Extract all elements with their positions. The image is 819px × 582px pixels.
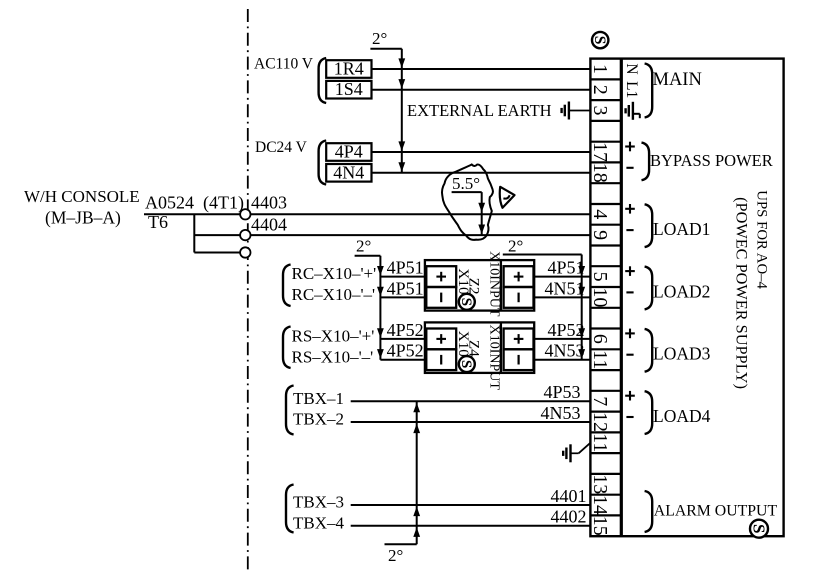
brace LOAD3 group xyxy=(645,329,653,372)
terminal pin number 3 at y 111 xyxy=(589,106,611,116)
svg-text:RC–X10–'+': RC–X10–'+' xyxy=(292,264,377,283)
svg-text:4403: 4403 xyxy=(251,193,287,213)
wire branch to node B xyxy=(194,234,240,236)
terminal strip cell dividers xyxy=(590,78,620,80)
plus sign LOAD4 xyxy=(625,395,635,397)
svg-text:LOAD3: LOAD3 xyxy=(653,344,711,364)
svg-text:4P52: 4P52 xyxy=(387,320,424,340)
twist arrow at TBX-3 wire xyxy=(413,507,420,517)
converter Z2 outline xyxy=(425,260,534,311)
svg-text:4P51: 4P51 xyxy=(387,278,424,298)
terminal pin number 11 at y 360 xyxy=(589,350,611,369)
terminal pin number 14 at y 505 xyxy=(589,495,611,515)
svg-text:BYPASS POWER: BYPASS POWER xyxy=(650,151,773,170)
svg-text:X10INPUT: X10INPUT xyxy=(487,251,502,317)
shield symbol in Z4 xyxy=(459,356,475,372)
Z4 right minus sign xyxy=(517,355,519,365)
svg-text:X10INPUT: X10INPUT xyxy=(487,325,502,391)
svg-text:14: 14 xyxy=(589,495,611,515)
plus sign LOAD3 xyxy=(625,332,635,334)
label X10 of Z4 xyxy=(455,331,472,358)
revision cloud xyxy=(442,164,493,239)
label N xyxy=(623,63,640,74)
wire Z2- to terminal 10 xyxy=(534,296,590,298)
twist arrow at 4N53 wire xyxy=(578,349,585,359)
svg-text:2°: 2° xyxy=(388,546,403,565)
svg-text:L1: L1 xyxy=(623,81,640,98)
label Z2 xyxy=(465,278,482,295)
Z2 left plus sign xyxy=(436,276,446,278)
twist arrow at wire 1S4 xyxy=(398,79,405,89)
svg-text:4P51: 4P51 xyxy=(387,258,424,278)
pen mark symbol xyxy=(500,187,515,208)
terminal pin number 5 at y 277 xyxy=(589,272,611,282)
wire TBX-1 to terminal 7 xyxy=(351,400,591,402)
terminal strip right edge xyxy=(620,59,623,537)
wire RS- to Z4 xyxy=(380,359,425,361)
wire 4404 to terminal 9 xyxy=(250,234,590,236)
minus sign LOAD2 xyxy=(626,291,633,293)
svg-text:MAIN: MAIN xyxy=(653,70,702,90)
brace AC110V group xyxy=(319,58,327,103)
svg-text:X10: X10 xyxy=(455,331,472,358)
wire RS+ to Z4 xyxy=(380,338,425,340)
svg-text:LOAD4: LOAD4 xyxy=(653,406,711,426)
svg-text:4P53: 4P53 xyxy=(543,382,580,402)
wire branch to node C xyxy=(194,252,240,254)
plus sign LOAD2 xyxy=(625,270,635,272)
converter Z4 outline xyxy=(425,322,534,373)
wire RC+ to Z2 xyxy=(380,276,425,278)
twist marker bottom vertical line xyxy=(416,401,418,544)
terminal box 1R4 xyxy=(326,60,371,78)
twist arrow at TBX-4 wire xyxy=(413,527,420,537)
svg-text:2°: 2° xyxy=(508,237,523,256)
shield symbol in Z2 xyxy=(459,294,475,310)
svg-text:LOAD1: LOAD1 xyxy=(653,219,710,239)
node A (boundary crossing of 4403) xyxy=(240,209,250,219)
brace RC-X10 group xyxy=(283,265,291,307)
Z4 left minus sign xyxy=(440,355,442,365)
brace TBX-3/4 group xyxy=(286,485,294,533)
boundary dash-dot line (panel limit) xyxy=(247,9,249,570)
svg-text:4P52: 4P52 xyxy=(387,341,424,361)
svg-text:2°: 2° xyxy=(372,29,387,48)
wire TBX-3 (4401) to terminal 14 xyxy=(351,504,591,506)
label Z4 xyxy=(465,340,482,357)
brace ALARM OUTPUT group xyxy=(645,491,653,532)
Z4 right plus box xyxy=(504,329,534,350)
svg-text:S: S xyxy=(591,36,608,45)
twist marker top underline xyxy=(370,48,401,50)
Z4 left minus box xyxy=(426,349,456,370)
twist marker right vertical line xyxy=(581,255,583,360)
Z4 right minus box xyxy=(504,349,534,370)
brace TBX-1/2 group xyxy=(286,386,294,435)
Z2 right plus box xyxy=(504,266,534,287)
shield symbol top xyxy=(592,32,608,48)
svg-text:LOAD2: LOAD2 xyxy=(653,281,710,301)
twist marker left vertical line xyxy=(379,256,381,360)
brace DC24V group xyxy=(319,141,327,185)
plus sign LOAD1 xyxy=(625,208,635,210)
node C (spare boundary crossing) xyxy=(240,247,250,257)
twist arrow at 4P51 wire xyxy=(578,266,585,276)
Z2 right minus sign xyxy=(517,293,519,303)
wire Z2+ to terminal 5 xyxy=(534,276,590,278)
wire TBX-4 (4402) to terminal 15 xyxy=(351,525,591,527)
svg-text:17: 17 xyxy=(589,142,611,162)
twist arrow at RC+ wire xyxy=(377,266,384,276)
svg-text:9: 9 xyxy=(589,230,611,240)
twist arrow at RS+ wire xyxy=(377,328,384,338)
Z2 right plus sign xyxy=(514,276,524,278)
terminal pin number 12 at y 422 xyxy=(589,412,611,432)
svg-text:2: 2 xyxy=(589,85,611,95)
svg-text:N: N xyxy=(623,63,640,74)
earth symbol inside UPS (main) xyxy=(632,102,634,120)
svg-text:4N51: 4N51 xyxy=(545,278,585,298)
wire earth stub from terminal 11 xyxy=(579,443,591,454)
wire 1S4 to terminal 2 xyxy=(372,89,591,91)
arrow 5.5deg at wire 4403 xyxy=(478,203,485,213)
svg-text:RS–X10–'–': RS–X10–'–' xyxy=(292,347,374,366)
terminal pin number 18 at y 173 xyxy=(589,163,611,183)
label UPS FOR AO-4 xyxy=(754,190,770,289)
svg-text:10: 10 xyxy=(589,287,611,307)
brace RS-X10 group xyxy=(283,327,291,369)
brace BYPASS group xyxy=(642,143,650,181)
svg-text:S: S xyxy=(458,298,475,306)
Z2 left minus box xyxy=(426,287,456,308)
twist arrow at TBX-1 wire xyxy=(413,403,420,413)
marker 5.5deg underline xyxy=(452,191,482,193)
terminal pin number 7 at y 401 xyxy=(589,396,611,406)
terminal pin number 9 at y 235 xyxy=(589,230,611,240)
brace LOAD2 group xyxy=(645,267,653,310)
Z4 divider line xyxy=(500,322,502,373)
svg-text:ALARM OUTPUT: ALARM OUTPUT xyxy=(654,503,778,520)
svg-text:RC–X10–'–': RC–X10–'–' xyxy=(292,285,376,304)
svg-text:4N4: 4N4 xyxy=(333,162,364,182)
label X10INPUT of Z2 xyxy=(487,251,502,317)
terminal pin number 4 at y 214 xyxy=(589,209,611,219)
svg-text:(M–JB–A): (M–JB–A) xyxy=(45,208,121,228)
twist arrow at wire 4P4 xyxy=(398,141,405,151)
brace LOAD1 group xyxy=(645,204,653,247)
svg-text:TBX–2: TBX–2 xyxy=(293,410,344,429)
twist arrow at wire 1R4 xyxy=(398,58,405,68)
svg-text:11: 11 xyxy=(589,350,611,369)
svg-text:4N53: 4N53 xyxy=(541,403,581,423)
label L1 xyxy=(623,81,640,98)
terminal box 4N4 xyxy=(326,164,371,182)
earth symbol external xyxy=(568,102,570,120)
terminal box 4P4 xyxy=(326,143,371,161)
twist arrow at 4P52 wire xyxy=(578,328,585,338)
svg-text:S: S xyxy=(750,524,769,534)
arrow 5.5deg at wire 4404 xyxy=(478,225,485,235)
svg-text:15: 15 xyxy=(589,516,611,536)
svg-text:1R4: 1R4 xyxy=(334,59,364,79)
svg-text:4P4: 4P4 xyxy=(335,142,363,162)
wire 4N4 to terminal 18 xyxy=(372,172,591,174)
svg-text:4: 4 xyxy=(589,209,611,219)
twist arrow at RC- wire xyxy=(377,287,384,297)
terminal pin number 13 at y 484 xyxy=(589,474,611,494)
terminal pin number 1 at y 69 xyxy=(589,64,611,74)
terminal pin number 15 at y 526 xyxy=(589,516,611,536)
wire 4P4 to terminal 17 xyxy=(372,151,591,153)
svg-text:UPS FOR AO–4: UPS FOR AO–4 xyxy=(754,190,770,289)
svg-text:4404: 4404 xyxy=(251,215,287,235)
brace LOAD4 group xyxy=(645,391,653,434)
svg-text:TBX–1: TBX–1 xyxy=(293,389,344,408)
twist arrow at 4N51 wire xyxy=(578,287,585,297)
wire 1R4 to terminal 1 xyxy=(372,68,591,70)
terminal box 1S4 xyxy=(326,81,371,99)
wire branch vertical from console xyxy=(193,214,195,252)
svg-text:4402: 4402 xyxy=(551,507,587,527)
brace MAIN group xyxy=(645,64,653,118)
twist arrow at RS- wire xyxy=(377,349,384,359)
svg-text:TBX–3: TBX–3 xyxy=(293,493,344,512)
svg-text:W/H CONSOLE: W/H CONSOLE xyxy=(24,187,140,206)
wire RC- to Z2 xyxy=(380,296,425,298)
twist marker top vertical line xyxy=(401,49,403,173)
UPS enclosure box xyxy=(590,59,783,537)
svg-text:3: 3 xyxy=(589,106,611,116)
svg-text:1S4: 1S4 xyxy=(335,79,363,99)
Z2 right minus box xyxy=(504,287,534,308)
Z4 right plus sign xyxy=(514,338,524,340)
svg-text:6: 6 xyxy=(589,334,611,344)
svg-text:4N53: 4N53 xyxy=(545,341,585,361)
label X10 of Z2 xyxy=(455,268,472,295)
minus sign LOAD1 xyxy=(626,229,633,231)
terminal pin number 2 at y 90 xyxy=(589,85,611,95)
terminal pin number 6 at y 339 xyxy=(589,334,611,344)
svg-text:S: S xyxy=(458,360,475,368)
Z4 left plus box xyxy=(426,329,456,350)
label X10INPUT of Z4 xyxy=(487,325,502,391)
svg-text:X10: X10 xyxy=(455,268,472,295)
Z4 left plus sign xyxy=(436,338,446,340)
svg-text:12: 12 xyxy=(589,412,611,432)
twist marker left underline xyxy=(355,255,381,257)
svg-text:11: 11 xyxy=(589,433,611,452)
terminal pin number 17 at y 152 xyxy=(589,142,611,162)
svg-text:5.5°: 5.5° xyxy=(452,174,480,193)
terminal pin number 10 at y 297 xyxy=(589,287,611,307)
Z2 divider line xyxy=(500,260,502,311)
Z2 left plus box xyxy=(426,266,456,287)
twist arrow at TBX-2 wire xyxy=(413,424,420,434)
node B (boundary crossing of 4404) xyxy=(240,230,250,240)
Z2 left minus sign xyxy=(440,293,442,303)
svg-text:TBX–4: TBX–4 xyxy=(293,513,345,532)
twist marker right underline xyxy=(503,254,582,256)
svg-text:5: 5 xyxy=(589,272,611,282)
twist marker bottom overline xyxy=(385,543,417,545)
svg-text:A0524 (4T1): A0524 (4T1) xyxy=(145,193,244,214)
svg-text:RS–X10–'+': RS–X10–'+' xyxy=(292,327,375,346)
marker 5.5deg vertical line xyxy=(481,192,483,235)
label (POWEC POWER SUPPLY) xyxy=(732,197,751,389)
terminal pin number 11 at y 443 xyxy=(589,433,611,452)
svg-text:(POWEC POWER SUPPLY): (POWEC POWER SUPPLY) xyxy=(732,197,751,389)
svg-text:4401: 4401 xyxy=(551,486,587,506)
svg-text:DC24 V: DC24 V xyxy=(255,139,308,156)
wire TBX-2 to terminal 12 xyxy=(351,421,591,423)
wire Z4+ to terminal 6 xyxy=(534,338,590,340)
svg-text:2°: 2° xyxy=(356,237,371,256)
minus sign BYPASS xyxy=(626,167,633,169)
minus sign LOAD4 xyxy=(626,416,633,418)
minus sign LOAD3 xyxy=(626,354,633,356)
plus sign BYPASS xyxy=(625,145,635,147)
svg-text:13: 13 xyxy=(589,474,611,494)
svg-text:1: 1 xyxy=(589,64,611,74)
earth symbol at terminal 11 xyxy=(569,444,571,462)
svg-text:AC110 V: AC110 V xyxy=(254,56,314,73)
svg-text:EXTERNAL EARTH: EXTERNAL EARTH xyxy=(407,101,552,120)
twist arrow at wire 4N4 xyxy=(398,162,405,172)
wire Z4- to terminal 11 xyxy=(534,359,590,361)
svg-text:18: 18 xyxy=(589,163,611,183)
shield symbol bottom right xyxy=(750,520,768,538)
wire 4403 from console to terminal 4 xyxy=(144,213,590,215)
svg-text:7: 7 xyxy=(589,396,611,406)
